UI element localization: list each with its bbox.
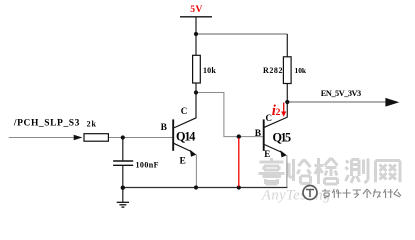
- svg-text:100nF: 100nF: [136, 160, 159, 169]
- svg-text:C: C: [181, 106, 188, 116]
- svg-text:5V: 5V: [190, 5, 202, 15]
- svg-text:10k: 10k: [203, 66, 216, 75]
- svg-text:EN_5V_3V3: EN_5V_3V3: [321, 89, 361, 98]
- svg-text:10k: 10k: [295, 66, 307, 75]
- svg-text:Q15: Q15: [273, 130, 292, 144]
- svg-text:R282: R282: [263, 66, 283, 75]
- svg-text:AnyTesting: AnyTesting: [261, 188, 331, 204]
- svg-text:E: E: [180, 157, 186, 167]
- svg-text:Q14: Q14: [176, 129, 195, 143]
- svg-text:C: C: [266, 113, 273, 123]
- svg-text:B: B: [255, 129, 262, 139]
- svg-text:/PCH_SLP_S3: /PCH_SLP_S3: [13, 119, 80, 129]
- svg-text:2k: 2k: [87, 119, 97, 128]
- svg-text:B: B: [161, 123, 168, 133]
- svg-text:E: E: [264, 149, 270, 159]
- svg-text:2: 2: [276, 108, 281, 118]
